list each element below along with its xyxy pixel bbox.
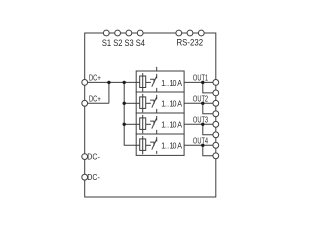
channel box 3 [136, 113, 184, 134]
terminal OUT2 b [213, 111, 219, 117]
fuse F4 [140, 136, 146, 154]
wire jumper between DC+ terminals [108, 82, 110, 103]
wire OUT3 [184, 123, 216, 125]
terminal S4 [137, 30, 143, 36]
terminal DC+ 1 [82, 80, 88, 86]
svg-text:RS-232: RS-232 [177, 38, 204, 48]
wire feed channel 3 [124, 123, 140, 125]
breaker contact 2 [146, 97, 157, 108]
terminal S2 [115, 30, 121, 36]
terminal DC- 2 [82, 174, 88, 180]
wire OUT1 [184, 81, 216, 83]
wire OUT2 [184, 102, 216, 104]
junction dot bus channel 2 [123, 102, 126, 105]
wire OUT4 [184, 144, 216, 146]
wire OUT1 branch [203, 82, 216, 93]
svg-text:1..10 A: 1..10 A [161, 99, 183, 109]
svg-text:1..10 A: 1..10 A [161, 78, 183, 88]
svg-text:OUT2: OUT2 [193, 94, 208, 103]
svg-text:1..10 A: 1..10 A [161, 141, 183, 151]
breaker contact 3 [146, 118, 157, 129]
terminal S3 [126, 30, 132, 36]
terminal OUT1 b [213, 90, 219, 96]
wire feed channel 2 [124, 102, 140, 104]
wire DC+ terminal 2 [85, 102, 109, 104]
junction dot OUT1 [201, 81, 204, 84]
wire DC+ feed (net DC+) [85, 81, 140, 83]
terminal S1 [103, 30, 109, 36]
terminal OUT4 a [213, 142, 219, 148]
terminal OUT2 a [213, 100, 219, 106]
breaker contact 4 [146, 139, 157, 150]
junction dot DC+ jumper [107, 81, 110, 84]
channel box 2 [136, 92, 184, 113]
wire OUT3 branch [203, 124, 216, 135]
svg-text:S4: S4 [136, 38, 145, 48]
terminal RS-232 pin 2 [187, 30, 193, 36]
svg-text:DC+: DC+ [89, 74, 101, 83]
terminal OUT1 a [213, 80, 219, 86]
svg-text:DC-: DC- [87, 173, 100, 182]
channel box 4 [136, 134, 184, 155]
junction dot bus channel 1 [123, 81, 126, 84]
svg-text:S2: S2 [113, 38, 122, 48]
svg-text:S1: S1 [102, 38, 111, 48]
junction dot OUT4 [201, 144, 204, 147]
terminal OUT3 a [213, 121, 219, 127]
terminal OUT3 b [213, 132, 219, 138]
wire OUT2 branch [203, 103, 216, 114]
terminal DC- 1 [82, 154, 88, 160]
terminal RS-232 pin 3 [198, 30, 204, 36]
terminal OUT4 b [213, 153, 219, 159]
junction dot OUT2 [201, 102, 204, 105]
svg-text:OUT1: OUT1 [193, 73, 208, 82]
terminal DC+ 2 [82, 100, 88, 106]
svg-text:OUT4: OUT4 [193, 136, 209, 145]
junction dot bus channel 3 [123, 123, 126, 126]
svg-text:OUT3: OUT3 [193, 115, 208, 124]
svg-text:DC-: DC- [87, 152, 100, 161]
channel box 1 [136, 71, 184, 92]
svg-text:DC+: DC+ [89, 95, 101, 104]
module outline [85, 33, 216, 197]
trip linkage (dashed) [156, 67, 158, 154]
wire OUT4 branch [203, 145, 216, 156]
terminal RS-232 pin 1 [176, 30, 182, 36]
breaker contact 1 [146, 76, 157, 87]
svg-text:S3: S3 [125, 38, 134, 48]
junction dot OUT3 [201, 123, 204, 126]
wire DC+ distribution bus [124, 82, 140, 145]
fuse F1 [140, 73, 146, 91]
fuse F2 [140, 94, 146, 112]
fuse F3 [140, 115, 146, 133]
svg-text:1..10 A: 1..10 A [161, 120, 183, 130]
